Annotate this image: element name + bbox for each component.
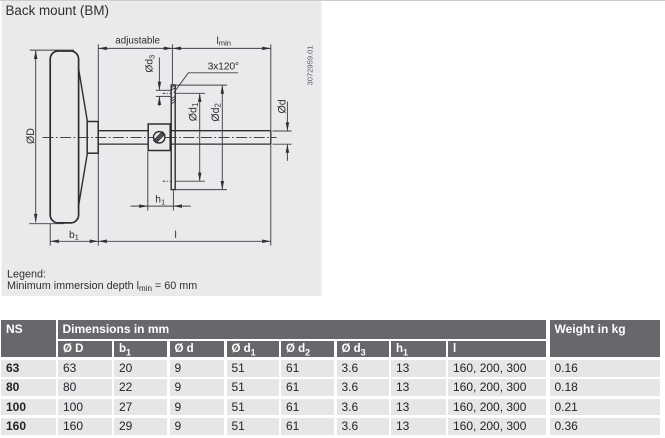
dimension h1: dimension line with outside arrows: [131, 204, 191, 208]
dimension Od2: dimension line with arrows: [221, 85, 225, 190]
drawing panel (gray background): [0, 0, 340, 312]
dimension h1: extension lines: [147, 152, 149, 211]
dimension Od1: dimension line with arrows: [198, 93, 202, 181]
svg-text:Minimum immersion depth lmin =: Minimum immersion depth lmin = 60 mm: [7, 280, 197, 293]
extension line at neck face (x=98.3, for adjustable / l): [97, 44, 99, 245]
back-mount flange plate: [171, 85, 175, 190]
dimension Od (stem): extension lines: [273, 130, 292, 132]
dimension Od: dimension line with outside arrows: [286, 102, 290, 161]
dimension OD: extension line top: [30, 49, 74, 51]
dimension Od2: extension lines: [175, 84, 227, 86]
dimension Od3: dimension line with arrows: [158, 58, 162, 106]
data row 80: [1, 379, 56, 396]
flange section hatching (below d3 hole): [171, 96, 175, 103]
dimension line adjustable (y=48.4): [98, 47, 172, 51]
collar screw head: [154, 132, 165, 143]
stem end cap: [270, 131, 272, 144]
svg-text:ØD: ØD: [25, 128, 37, 144]
centerline (stem axis): [43, 136, 277, 138]
dimension line l: [98, 240, 270, 244]
extension line case left (x=50.2, for b1): [49, 224, 51, 246]
data row 160: [1, 418, 56, 435]
label 3x120deg with leader: [174, 61, 239, 92]
table header row 1: [1, 320, 56, 357]
panel background: [2, 1, 322, 296]
dimension Od3: extension lines at hole: [156, 89, 171, 91]
dimension line lmin: [172, 47, 270, 51]
svg-text:Legend:: Legend:: [7, 269, 46, 281]
extension line flange face (x=172.4 top): [171, 44, 173, 84]
extension line at stem tip (x=270.8, for lmin / l): [270, 44, 272, 245]
stem (bottom line): [98, 143, 270, 145]
svg-text:3x120°: 3x120°: [208, 61, 239, 72]
dimension OD: dimension line with arrows: [34, 50, 38, 222]
dimension line b1: [50, 240, 98, 244]
svg-text:adjustable: adjustable: [115, 36, 160, 47]
dimension Od1: extension lines: [175, 92, 205, 94]
svg-text:Ød: Ød: [276, 99, 288, 113]
svg-text:l: l: [175, 230, 177, 241]
d3 hole centerline (bottom hole): [163, 180, 171, 182]
stem (top line): [98, 130, 270, 132]
separator rule above table: [0, 0, 665, 1]
dimension OD: extension line bottom: [29, 223, 64, 225]
case taper bottom: [78, 153, 87, 207]
data row 100: [1, 399, 56, 416]
adjustable collar block: [148, 124, 170, 151]
flange section hatching (above d3 hole): [171, 85, 175, 90]
svg-text:3072959.01: 3072959.01: [306, 45, 315, 85]
data row 63: [1, 360, 56, 377]
collar screw slot: [153, 132, 165, 144]
svg-text:Back mount (BM): Back mount (BM): [6, 3, 109, 18]
d3 hole centerline (top hole): [163, 92, 171, 94]
neck: [87, 122, 98, 154]
case taper top: [78, 68, 87, 122]
table header row 2: [58, 341, 112, 358]
case (dial housing): [50, 51, 78, 223]
